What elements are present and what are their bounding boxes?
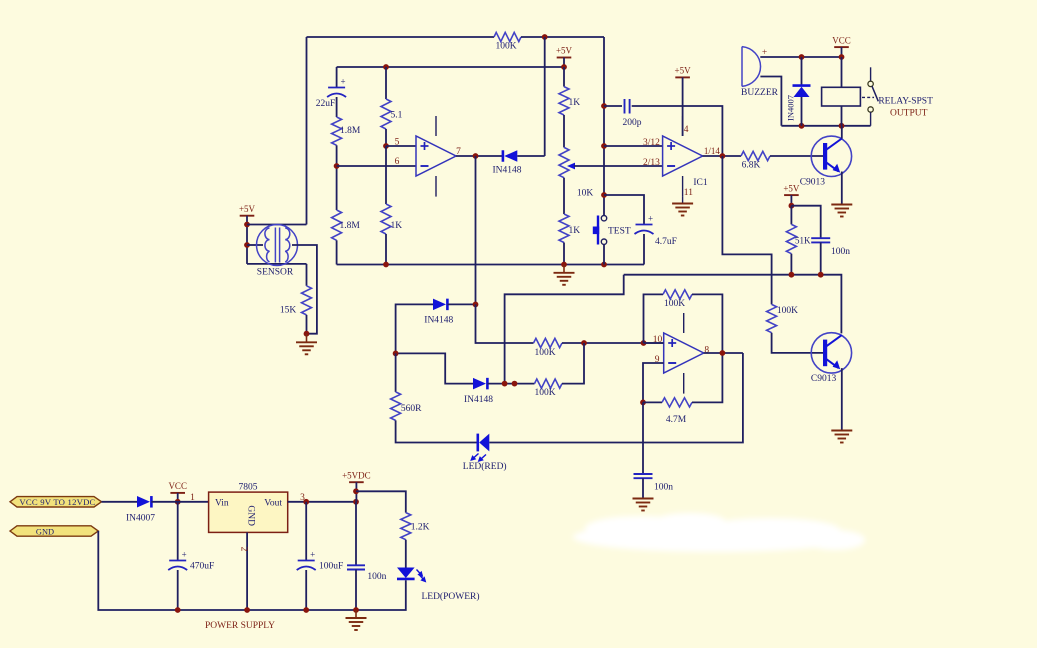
node rail 100uF junction	[303, 607, 309, 613]
svg-text:11: 11	[684, 188, 693, 198]
wire 200p left stub	[604, 105, 622, 107]
wire feedback 100K5 loop	[644, 294, 664, 343]
node 100K-output junction	[542, 34, 548, 40]
IC1 label	[693, 178, 708, 188]
diode D IN4148 (feedback)	[492, 150, 521, 175]
node 4.7M junction	[640, 400, 646, 406]
wire 5.1 bottom	[385, 129, 387, 146]
wire sensor mid-left stub	[247, 244, 263, 246]
svg-text:GND: GND	[36, 527, 54, 536]
wire 4.7M left stub	[643, 401, 662, 403]
resistor R 6.8K	[741, 151, 770, 170]
node rail TEST junction	[601, 262, 607, 268]
pin 11 label	[684, 188, 693, 198]
wire 100n3 bottom stub	[355, 570, 357, 611]
wire IC1 output	[703, 155, 741, 157]
wire +5V stem Q2	[790, 195, 792, 206]
+5V supply symbol (divider)	[556, 46, 573, 58]
wire 100n2 bottom stub	[642, 478, 644, 498]
wire IN4007 bottom stub	[801, 97, 803, 126]
wire LED rail right	[489, 353, 743, 443]
node lower diode junction B	[512, 381, 518, 387]
ground (main rail)	[554, 265, 575, 285]
pin 6 label	[395, 157, 400, 167]
svg-text:IN4007: IN4007	[785, 95, 795, 121]
wire 4.7uF to rail	[643, 234, 645, 265]
node TEST top junction	[601, 192, 607, 198]
svg-text:+5V: +5V	[239, 204, 256, 214]
node 200p junction	[601, 103, 607, 109]
svg-text:2: 2	[239, 547, 249, 552]
port GND	[10, 526, 98, 537]
pin 3/12 label	[643, 138, 660, 148]
resistor R 1K (divider bottom)	[559, 214, 580, 243]
switch TEST pushbutton	[593, 216, 631, 245]
wire output down long	[475, 156, 477, 304]
wire upper IN4148 branch	[396, 304, 433, 353]
wire IN4007 top stub	[801, 57, 803, 86]
wire port to diode	[102, 501, 138, 503]
RELAY-SPST label	[878, 97, 933, 107]
svg-text:+: +	[310, 550, 315, 560]
wire IC1 pin11 stub ext	[682, 197, 684, 204]
wire sensor bottom	[247, 263, 307, 265]
svg-text:IN4007: IN4007	[126, 514, 155, 524]
svg-text:1K: 1K	[569, 226, 581, 236]
svg-text:BUZZER: BUZZER	[741, 88, 779, 98]
+5V supply symbol (IC1)	[675, 66, 692, 78]
svg-text:+: +	[341, 77, 346, 87]
wire relay coil top stub	[841, 57, 843, 87]
wire top rail left	[307, 36, 495, 38]
svg-text:1.8M: 1.8M	[340, 126, 361, 136]
wire IC1 pin4 stem	[682, 77, 684, 136]
svg-text:4: 4	[684, 125, 689, 135]
svg-text:TEST: TEST	[608, 227, 631, 237]
wire drop to 100K2	[476, 304, 534, 343]
wire 1K1 to pot	[563, 115, 565, 147]
node relay top junction	[839, 54, 845, 60]
wire 1K2 to rail	[563, 243, 565, 265]
svg-text:200p: 200p	[623, 118, 642, 128]
transistor Q2 C9013	[811, 333, 852, 384]
pin 9 label	[655, 355, 660, 365]
node rail pin2 junction	[244, 607, 250, 613]
node 100n rail junction	[818, 272, 824, 278]
wire TEST bottom stub	[603, 244, 605, 264]
resistor R 100K (Q2 base)	[767, 304, 799, 332]
wire 1K1 top stub	[563, 67, 565, 87]
VCC supply symbol	[832, 35, 851, 47]
svg-text:LED(POWER): LED(POWER)	[421, 591, 479, 602]
wire VCC stem	[841, 47, 843, 57]
wire 1K3 to rail	[385, 234, 387, 265]
resistor R 51K	[786, 224, 811, 253]
wire 100n2 drop	[642, 402, 644, 474]
POWER SUPPLY label	[205, 621, 275, 631]
node pin8 junction	[720, 350, 726, 356]
resistor R 1.2K	[401, 513, 430, 540]
ground (power supply)	[346, 610, 367, 630]
node 51K rail junction	[789, 272, 795, 278]
pin 2 label	[239, 547, 249, 552]
op-amp IC1 pins 3/12,2/13,1/14	[663, 116, 703, 197]
resistor R 5.1	[381, 99, 403, 129]
wire top right corner down	[603, 37, 605, 216]
capacitor C 100n (Q2)	[811, 238, 850, 257]
diode D IN4007 (flyback)	[785, 86, 810, 121]
svg-text:4.7uF: 4.7uF	[655, 237, 677, 247]
wire 15K bottom stub	[306, 315, 308, 334]
pin 10 label	[653, 335, 663, 345]
pin 2/13 label	[643, 158, 660, 168]
resistor R 1.8M lower	[332, 210, 361, 240]
wire op-amp pin5 input	[386, 145, 416, 147]
node lower diode junction A	[502, 381, 508, 387]
pin 5 label	[395, 137, 400, 147]
node 100uF junction	[303, 499, 309, 505]
svg-text:1K: 1K	[391, 221, 403, 231]
wire sensor top	[247, 224, 307, 226]
node 51K top junction	[789, 203, 795, 209]
+5V supply symbol (sensor bias)	[239, 204, 256, 216]
svg-text:6: 6	[395, 157, 400, 167]
svg-text:100K: 100K	[777, 306, 798, 316]
pin 1 label	[190, 493, 195, 503]
svg-text:VCC: VCC	[832, 35, 851, 45]
wire 560R to LED rail	[396, 420, 477, 442]
wire feedback right side	[692, 294, 722, 353]
svg-text:IN4148: IN4148	[492, 166, 521, 176]
regulator U2 7805	[209, 482, 288, 532]
svg-text:6.8K: 6.8K	[742, 161, 761, 171]
white smudge	[573, 513, 865, 552]
svg-text:+5V: +5V	[675, 66, 692, 76]
wire 560R stub	[395, 353, 397, 392]
svg-text:IN4148: IN4148	[424, 316, 453, 326]
wire collector rail	[781, 125, 870, 127]
node pin10 junction	[641, 340, 647, 346]
diode D IN4007 (input)	[126, 496, 155, 523]
node sensor top junction	[244, 222, 250, 228]
wire bottom rail	[337, 264, 644, 266]
potentiometer R 10K	[559, 147, 593, 198]
resistor R 1.8M upper	[332, 117, 361, 145]
svg-text:8: 8	[704, 346, 709, 356]
wire 100n bottom stub	[820, 242, 822, 274]
wire pin3/12 input	[604, 145, 663, 147]
diode D IN4148 (upper)	[424, 299, 453, 326]
svg-text:100K: 100K	[664, 299, 685, 309]
resistor R 560R	[391, 392, 423, 421]
wire TEST-4.7uF link	[604, 195, 644, 225]
wire pin10 input	[644, 342, 664, 344]
wire op-amp output	[456, 155, 503, 157]
svg-text:POWER SUPPLY: POWER SUPPLY	[205, 621, 275, 631]
pin 2 stem	[246, 532, 248, 610]
capacitor C 470uF	[168, 502, 214, 572]
wire diode to regulator	[151, 501, 208, 503]
wire 100K2 to op-amp	[562, 342, 664, 344]
svg-text:+5VDC: +5VDC	[342, 470, 371, 480]
wire feedback drop	[544, 37, 546, 156]
port VCC 9V TO 12VDC	[10, 497, 102, 508]
node 560R top junction	[393, 351, 399, 357]
svg-text:SENSOR: SENSOR	[257, 268, 294, 278]
svg-text:100n: 100n	[654, 483, 673, 493]
wire 1.2K to LED	[405, 540, 407, 568]
svg-text:470uF: 470uF	[190, 562, 214, 572]
wire 4.7M right side	[692, 353, 722, 402]
node IC1 output junction	[720, 153, 726, 159]
resistor R 15K	[280, 286, 312, 316]
svg-text:5: 5	[395, 137, 400, 147]
wire diode to feedback	[517, 155, 544, 157]
wire sensor left vertical	[246, 216, 248, 264]
capacitor C 100n (integrator)	[634, 474, 674, 493]
svg-text:OUTPUT: OUTPUT	[890, 108, 928, 118]
svg-text:51K: 51K	[795, 235, 811, 245]
capacitor C 22uF	[316, 77, 346, 110]
capacitor C 200p	[623, 99, 642, 128]
wire 5.1 top stub	[385, 67, 387, 99]
node +5VDC junction lower	[353, 499, 359, 505]
diode D IN4148 (lower)	[464, 378, 493, 405]
wire 22uF top stub	[336, 67, 338, 88]
wire IC1 out to 100K4	[722, 156, 771, 304]
wire lower diode out	[488, 383, 535, 385]
node rail 100n junction	[353, 607, 359, 613]
+5VDC supply symbol	[342, 470, 371, 482]
op-amp U1 pins 5/6/7	[416, 116, 456, 197]
svg-text:IN4148: IN4148	[464, 395, 493, 405]
node relay bottom junction	[839, 123, 845, 129]
svg-text:560R: 560R	[401, 404, 422, 414]
wire 100uF bottom stub	[305, 570, 307, 610]
ground (sensor)	[296, 334, 317, 355]
pin 4 label	[684, 125, 689, 135]
wire relay coil bottom stub	[841, 106, 843, 126]
relay dashed link	[862, 96, 874, 98]
svg-text:7805: 7805	[239, 482, 258, 492]
resistor R 100K (mix upper)	[534, 338, 563, 357]
node upper diode junction	[473, 302, 479, 308]
buzzer BZ1	[741, 47, 779, 98]
svg-text:IC1: IC1	[693, 178, 708, 188]
svg-text:22uF: 22uF	[316, 99, 336, 109]
svg-text:10K: 10K	[577, 189, 594, 199]
wire lower IN4148 branch	[396, 353, 473, 383]
svg-text:1K: 1K	[569, 98, 581, 108]
wire +5VDC stem	[355, 482, 357, 502]
wire second rail y67	[337, 66, 564, 68]
wire pin8 output	[704, 352, 743, 354]
node sensor mid junction	[244, 242, 250, 248]
svg-text:+5V: +5V	[783, 183, 800, 193]
wire buzzer plus rail	[760, 56, 841, 58]
wire 1.8M junction segment	[336, 145, 338, 210]
ground (100n)	[633, 499, 654, 511]
relay K1 coil	[822, 87, 861, 106]
wire pot to 1K2	[563, 178, 565, 214]
resistor R 4.7M	[662, 398, 692, 425]
resistor R 100K (feedback U1C)	[663, 290, 692, 309]
svg-text:VCC: VCC	[168, 481, 187, 491]
node pin6 junction	[334, 163, 340, 169]
svg-text:100uF: 100uF	[319, 562, 343, 572]
svg-text:GND: GND	[245, 505, 255, 526]
wire sensor output right	[292, 245, 317, 334]
pin 1/14 label	[704, 146, 721, 156]
wire LED to rail	[356, 580, 406, 610]
resistor R 1K (divider top)	[559, 87, 580, 115]
wire top rail right	[521, 36, 604, 38]
wire 15K top stub	[306, 264, 308, 286]
wire regulator output	[288, 501, 356, 503]
wire 1K3 top stub	[385, 146, 387, 204]
wire GND port down	[98, 531, 356, 610]
OUTPUT label	[890, 108, 928, 118]
node +5VDC junction	[353, 488, 359, 494]
svg-text:2/13: 2/13	[643, 158, 660, 168]
node 3/12 junction	[601, 143, 607, 149]
node output-7 junction	[473, 153, 479, 159]
pin 8 label	[704, 346, 709, 356]
node VCC junction	[175, 499, 181, 505]
node mix junction	[581, 340, 587, 346]
wire buzzer minus path	[760, 77, 781, 126]
node 15K-ground junction	[304, 331, 310, 337]
node IN4007 top junction	[799, 54, 805, 60]
ground (IC1 pin11)	[672, 204, 693, 216]
wire 470uF bottom stub	[177, 570, 179, 610]
wire cross link down	[505, 275, 624, 384]
wire 22uF to 1.8M	[336, 97, 338, 117]
svg-text:4.7M: 4.7M	[666, 415, 687, 425]
node divider top junction	[561, 64, 567, 70]
transistor Q1 C9013	[800, 136, 852, 187]
pin 3 label	[300, 493, 305, 503]
wire 200p right	[632, 106, 723, 156]
node rail divider junction	[561, 262, 567, 268]
VCC supply symbol (input)	[168, 481, 187, 493]
wire emitter follower rail	[624, 275, 842, 334]
LED D LED(RED)	[463, 434, 507, 472]
wire Q1 collector	[841, 126, 843, 139]
svg-text:3/12: 3/12	[643, 138, 660, 148]
svg-text:Vin: Vin	[215, 498, 229, 508]
wire 51K bottom stub	[790, 254, 792, 275]
wire 100K3 up link	[562, 343, 584, 384]
svg-text:RELAY-SPST: RELAY-SPST	[878, 97, 933, 107]
svg-text:+: +	[648, 214, 653, 224]
svg-text:LED(RED): LED(RED)	[463, 461, 507, 472]
node rail-1K junction	[383, 262, 389, 268]
wire pot wiper to pin2/13	[574, 165, 663, 167]
wire 51K-100n link	[791, 206, 820, 239]
+5V supply symbol (Q2 bias)	[783, 183, 800, 195]
node pin5 junction	[383, 143, 389, 149]
svg-text:100n: 100n	[367, 572, 386, 582]
svg-text:5.1: 5.1	[391, 111, 403, 121]
svg-text:15K: 15K	[280, 306, 297, 316]
wire left rail from top	[306, 37, 308, 225]
svg-text:+5V: +5V	[556, 46, 573, 56]
wire +5VDC to 1.2K	[356, 491, 406, 512]
wire Q1 emitter	[841, 172, 843, 205]
wire +5V stem divider	[563, 58, 565, 68]
ground (Q1 emitter)	[831, 205, 852, 217]
svg-text:1.2K: 1.2K	[411, 523, 430, 533]
capacitor C 100n (output)	[347, 502, 387, 582]
wire pin9 input	[643, 363, 664, 402]
node IN4007 bottom junction	[799, 123, 805, 129]
wire VCC stem input	[177, 493, 179, 502]
svg-text:+: +	[182, 550, 187, 560]
wire upper diode out	[448, 303, 476, 305]
wire op-amp pin6 input	[337, 165, 416, 167]
op-amp U1 pins 10/9/8	[664, 313, 704, 394]
transducer SENSOR (microphone)	[257, 225, 298, 278]
resistor R 1K (left)	[381, 204, 402, 234]
svg-text:100K: 100K	[534, 348, 555, 358]
svg-text:100n: 100n	[831, 247, 850, 257]
wire Q2 emitter	[841, 368, 843, 430]
svg-text:100K: 100K	[534, 388, 555, 398]
node rail 470uF junction	[175, 607, 181, 613]
capacitor C 4.7uF	[635, 214, 677, 248]
resistor R 100K (mix lower)	[534, 379, 562, 398]
svg-text:1.8M: 1.8M	[340, 221, 361, 231]
resistor R 100K (feedback)	[494, 32, 521, 51]
pin 7 label	[456, 147, 461, 157]
node 5.1 top junction	[383, 64, 389, 70]
wire 1.8M lower to rail	[336, 240, 338, 264]
svg-text:C9013: C9013	[811, 374, 837, 384]
svg-text:100K: 100K	[495, 42, 516, 52]
capacitor C 100uF	[297, 502, 344, 572]
wire 100K4 to Q2 base	[772, 333, 826, 353]
svg-text:VCC 9V TO 12VDC: VCC 9V TO 12VDC	[19, 497, 95, 507]
ground (Q2 emitter)	[831, 431, 852, 443]
svg-text:Vout: Vout	[264, 498, 282, 508]
LED D LED(POWER)	[397, 568, 480, 603]
svg-text:1: 1	[190, 493, 195, 503]
relay contact SPST	[868, 67, 878, 126]
wire 51K top stub	[790, 206, 792, 225]
svg-text:1/14: 1/14	[704, 146, 721, 156]
svg-text:C9013: C9013	[800, 177, 826, 187]
wire 6.8K to Q1 base	[770, 155, 825, 157]
